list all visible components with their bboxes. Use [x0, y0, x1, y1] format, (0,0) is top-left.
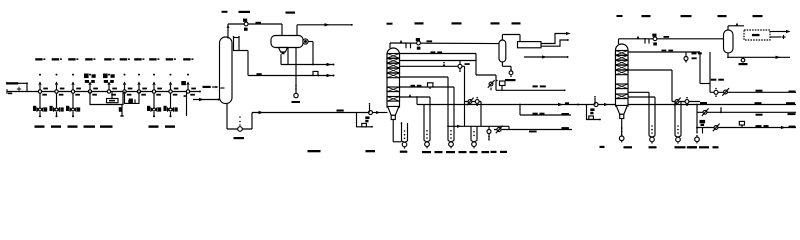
- flow arrow y127: [781, 126, 786, 129]
- flow arrow bypass: [376, 111, 380, 114]
- drum boot: [279, 48, 288, 55]
- drum D-1 shell: [271, 36, 303, 48]
- wire drum inlet riser: [281, 24, 283, 36]
- label C-3 overhead: [664, 36, 670, 38]
- label size station 9: [165, 125, 175, 127]
- label B tag station 10: [181, 81, 186, 85]
- valve station 9 riser and tag: [166, 58, 179, 95]
- labels y112: [756, 113, 796, 116]
- gauge dots drum drain: [295, 85, 297, 90]
- gauge pot beside C-1: [233, 36, 240, 51]
- flow arrow drum outlet: [327, 63, 332, 66]
- label row right top: [617, 15, 763, 17]
- valve station 3 riser and tag: [68, 58, 81, 95]
- valve drum drain: [294, 93, 298, 97]
- instrument box on y87: [428, 83, 433, 89]
- column C-3 packed shell: [616, 44, 629, 106]
- wire reflux line: [248, 75, 333, 77]
- wire C-1 bottoms run: [227, 128, 252, 130]
- wire bypass tick: [369, 103, 371, 112]
- label header size: [8, 93, 12, 95]
- wire line y112: [697, 111, 796, 113]
- wire y66 drop leg: [464, 66, 466, 126]
- globe valve below station 2: [50, 93, 64, 117]
- wire bypass to skirt: [373, 112, 388, 114]
- node outlet end dot: [333, 64, 335, 66]
- accumulator box D-1: [744, 30, 770, 40]
- flow arrow header A: [558, 102, 569, 106]
- label bypass C-2: [366, 150, 376, 152]
- drain box bypass: [362, 123, 367, 126]
- column C-2 packed shell: [387, 48, 400, 107]
- wire drop legs right 3: [675, 102, 681, 136]
- wire E-1 out B: [541, 39, 569, 46]
- globe valve below station 8: [147, 93, 161, 117]
- node vapor end dot: [351, 24, 353, 26]
- globe valve below station 1: [33, 93, 47, 117]
- node header left end tick: [6, 89, 8, 94]
- wire flush line y129: [494, 129, 572, 131]
- wire C-1 overhead riser: [227, 24, 230, 39]
- wire bypass loop 1: [90, 92, 123, 105]
- label size station 8: [149, 125, 159, 127]
- wire drop legs drain 1: [424, 97, 430, 141]
- flow arrow bottoms: [259, 111, 264, 114]
- label row center top: [387, 22, 521, 24]
- flow arrow product: [776, 56, 781, 59]
- vent arrow on y66: [443, 62, 446, 66]
- valve gauge pair: [714, 88, 718, 97]
- globe valve below station 9: [164, 93, 178, 117]
- vent arrow V-3: [736, 23, 739, 26]
- wire loop1 box stem: [111, 92, 113, 99]
- label stub mid manifold: [129, 99, 135, 104]
- drain valve C-2: [402, 141, 408, 149]
- wire boot leg A: [280, 54, 282, 64]
- wire bypass loop 2: [125, 92, 140, 104]
- wire C-2 side legs: [393, 122, 407, 142]
- label bottoms tag: [337, 110, 344, 112]
- wire collect header y126: [447, 125, 509, 127]
- wire inlet header top: [18, 82, 27, 84]
- node dot y112: [720, 107, 722, 113]
- wire D-1 out A: [770, 30, 791, 33]
- wire header corner x509: [508, 126, 510, 129]
- vessel V-2 shell: [499, 40, 506, 62]
- label 1-1/2 above valve: [239, 11, 251, 13]
- label FI tag: [465, 63, 470, 65]
- tie ticks C-3: [644, 38, 649, 44]
- wire drum vapor riser: [296, 25, 298, 36]
- vent arrow C-3: [637, 36, 640, 39]
- node header dot: [577, 104, 579, 106]
- label size station 1: [35, 125, 45, 127]
- wire drop legs drain 2: [448, 77, 454, 141]
- label under y129: [529, 131, 537, 133]
- wire C-2 line y97: [400, 96, 431, 98]
- valve block x700: [700, 120, 706, 126]
- wire pump discharge: [308, 42, 313, 65]
- wire drop legs drain 3: [471, 126, 477, 140]
- valve block loop 1: [119, 105, 124, 117]
- wire bottoms rise: [251, 113, 253, 130]
- wire C-1 bottoms drop: [226, 103, 228, 129]
- instrument on y52: [684, 52, 688, 63]
- valve stem station x489: [487, 126, 491, 140]
- tie ticks C-2: [405, 42, 411, 48]
- column C-3 skirt: [616, 105, 627, 118]
- valve PV overhead: [243, 19, 248, 31]
- control valve slash G: [488, 80, 495, 90]
- label bottoms C-1 line: [308, 150, 321, 152]
- wire V-3 top riser: [728, 26, 744, 30]
- loop seal jog: [313, 71, 320, 76]
- label product valve: [739, 63, 748, 65]
- vessel V-3 shell: [724, 30, 734, 53]
- control valve slash F: [467, 98, 474, 106]
- labels on y87: [411, 85, 422, 87]
- label instrument y52: [692, 57, 697, 59]
- valve on product line: [741, 57, 745, 62]
- valve block loop 2: [128, 100, 133, 104]
- valve station 8 riser and tag: [149, 58, 162, 95]
- labels pair x694: [692, 52, 702, 54]
- valve stem center pair: [475, 97, 479, 106]
- wire header drop: [416, 96, 418, 104]
- column C-1 shell: [220, 37, 233, 104]
- control valve slash B: [674, 98, 681, 106]
- labels on y53: [431, 51, 443, 53]
- wire drum outlet run: [281, 64, 333, 66]
- wire bypass tick C-3: [594, 96, 596, 105]
- wire manifold header: [7, 91, 200, 93]
- wire staircase drop: [476, 54, 496, 91]
- instrument box on y90: [496, 80, 505, 91]
- valve station 7 riser and tag: [134, 58, 147, 95]
- wire C-3 line y70: [628, 70, 672, 102]
- wire C-2 line y53: [400, 53, 477, 55]
- globe valve below station 3: [66, 93, 80, 117]
- wire drop leg x697: [696, 104, 702, 134]
- labels y92 right: [756, 90, 796, 93]
- valve station 4 riser and tag: [85, 58, 98, 95]
- inlet spec-break bar: [6, 82, 18, 84]
- wire D-1 out B: [770, 35, 786, 39]
- label overhead tag: [256, 22, 262, 24]
- flow arrow reflux: [327, 74, 332, 77]
- labels stub y87: [533, 85, 546, 87]
- wire overhead line: [228, 23, 244, 25]
- labels y115: [533, 113, 545, 115]
- flow arrow header B: [604, 103, 609, 106]
- wire product line y57: [728, 56, 790, 58]
- control valve slash C: [722, 88, 729, 96]
- gauge dots C-2 drain: [404, 130, 406, 139]
- label size mid A: [84, 125, 96, 127]
- vent arrow C-2: [400, 40, 403, 43]
- drain valve right 3: [675, 125, 681, 143]
- node feed junction dot: [218, 99, 220, 101]
- column C-2 skirt: [388, 106, 399, 119]
- labels drain row: [422, 151, 507, 153]
- wire y52 drop leg: [699, 52, 701, 84]
- pump motor on drum: [303, 39, 308, 44]
- instrument PIC block station 4: [84, 74, 96, 83]
- flow arrow vapor: [325, 23, 330, 26]
- wire column feed line: [193, 99, 220, 101]
- node junction dot: [26, 82, 28, 84]
- level mark in C-1: [220, 87, 224, 89]
- valve station 10 riser and tag: [183, 58, 196, 95]
- exchanger box E-1: [518, 42, 542, 48]
- valve blocks bypass: [365, 116, 369, 122]
- wire E-1 out A: [541, 32, 571, 44]
- wire C-2 drain stub: [392, 120, 394, 142]
- wire bottoms header: [417, 104, 796, 106]
- node pump tie dot: [312, 64, 314, 66]
- valve C-2 bypass: [369, 111, 373, 115]
- valve station 1 riser and tag: [35, 58, 48, 95]
- label end y115: [562, 113, 569, 115]
- wire V-2 bottom out: [502, 62, 511, 70]
- check valve symbol: [17, 87, 21, 91]
- valve station 2 riser and tag: [52, 58, 65, 95]
- wire line y90: [496, 89, 566, 91]
- instrument box y127: [739, 121, 744, 127]
- label V-2 drain: [505, 79, 516, 81]
- wire drop x481: [480, 102, 482, 127]
- wire V-2 top riser: [502, 35, 520, 42]
- wire overhead to drum: [248, 23, 282, 25]
- wire bypass U C-3: [587, 105, 601, 121]
- valve PV C-2 overhead: [416, 38, 421, 50]
- drain valve right 4: [695, 127, 700, 143]
- drain valve station 1: [424, 130, 430, 148]
- wire C-2 line y77: [400, 76, 449, 78]
- labels drain right 4: [689, 146, 719, 148]
- node header end dot: [199, 91, 201, 93]
- wire C-3 overhead riser: [619, 39, 724, 44]
- wire vapor line out: [297, 24, 351, 26]
- node reflux end dot: [333, 75, 335, 77]
- wire bottoms transfer line: [252, 112, 368, 114]
- wire C-2 line y60: [400, 60, 477, 62]
- flow arrow header y126: [457, 125, 462, 128]
- wire drop to manifold: [26, 83, 28, 91]
- labels header right: [700, 102, 795, 104]
- drain valve C-3: [619, 127, 624, 142]
- flow arrow feed: [199, 98, 204, 101]
- drain valve right 2: [649, 125, 655, 143]
- drain valve station 2: [448, 130, 454, 148]
- wire pair line y101: [465, 101, 482, 103]
- valve PV C-3 overhead: [652, 34, 657, 46]
- valve station 5 riser and tag: [104, 58, 117, 95]
- valve C-1 bottoms: [238, 127, 243, 132]
- instrument PIC block station 5: [103, 74, 115, 83]
- wire C-2 line y66: [400, 65, 465, 67]
- label size station 3: [68, 125, 78, 127]
- valve blocks bypass C-3: [590, 108, 594, 114]
- instrument FI on y66: [458, 60, 462, 72]
- wire C-2 line y87: [400, 86, 455, 88]
- wire bypass U: [357, 113, 373, 128]
- labels on y52: [662, 50, 674, 52]
- flow arrow y97: [409, 94, 412, 97]
- valve station 6 riser and tag: [120, 58, 133, 95]
- label size station 2: [51, 125, 61, 127]
- label size mid B: [100, 125, 113, 127]
- wire drop leg at end of manifold: [184, 92, 187, 117]
- gauge dots C-1 bottoms: [239, 116, 241, 126]
- valve C-3 bypass: [594, 103, 598, 107]
- label below bottoms valve: [234, 137, 245, 139]
- wire C-2 overhead riser: [390, 43, 499, 48]
- wire boot leg B: [287, 48, 289, 65]
- wire gauge pot drain: [239, 51, 248, 76]
- label end y129: [562, 127, 569, 129]
- wire line y127: [696, 127, 796, 129]
- valve stem on y101: [685, 97, 689, 106]
- label 1/2 above C-1: [222, 11, 228, 13]
- wire slash line y101: [672, 101, 700, 103]
- label C-2 overhead: [427, 40, 433, 42]
- wire C-3 drain stub: [621, 119, 623, 136]
- wire valve pair line y92: [710, 91, 796, 93]
- drain box bypass C-3: [589, 116, 594, 119]
- control valve slash A: [496, 126, 503, 134]
- valve V-2 drain: [509, 69, 513, 77]
- wire C-3 line y52: [628, 51, 700, 53]
- drain valve station 3: [471, 131, 477, 148]
- label drum drain: [292, 101, 301, 103]
- control valve slash D: [702, 108, 709, 116]
- wire V-3 bottom out: [727, 53, 729, 58]
- wire C-3 line y97: [628, 97, 655, 136]
- label reflux tag: [257, 73, 262, 75]
- label C-2 drain: [400, 151, 408, 153]
- control valve slash E: [713, 124, 720, 132]
- label Mix above drum: [286, 12, 296, 14]
- wire drum drain drop: [295, 48, 297, 94]
- instrument box in loop 1: [107, 99, 119, 103]
- wire stub y57 right: [524, 55, 569, 58]
- labels pair y79: [711, 79, 724, 81]
- label line tag right: [203, 86, 219, 89]
- wire corner to y83: [700, 52, 710, 92]
- labels y127: [756, 125, 796, 128]
- labels C-3 drains: [600, 146, 697, 149]
- wire stub y115: [519, 104, 571, 115]
- wire C-3 line y92: [628, 92, 649, 136]
